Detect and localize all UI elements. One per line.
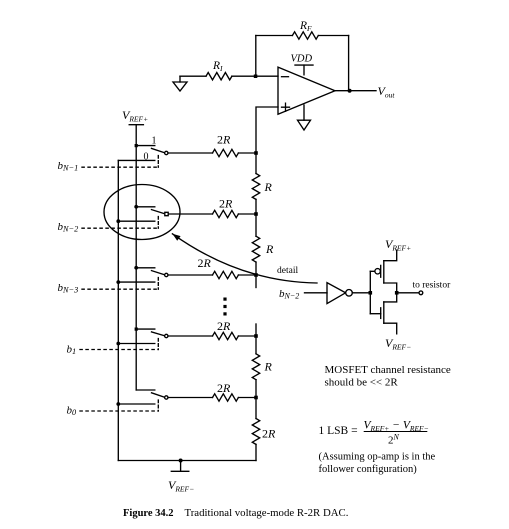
label b0 with leader [67,405,159,418]
svg-text:Figure 34.2: Figure 34.2 [123,508,174,519]
resistor R lower [252,236,274,262]
svg-text:R: R [264,360,273,374]
ground symbol at RI input [173,76,187,91]
svg-text:(Assuming op-amp is in the: (Assuming op-amp is in the [319,452,436,463]
caption Figure 34.2 [123,507,348,519]
node ladder junction 4 [254,334,258,338]
wire RI to inverting input [232,75,278,77]
wire switch3 to 2R [168,274,213,276]
switch b0 [116,390,168,411]
svg-text:VDD: VDD [291,54,313,65]
wire feedback top right [318,35,348,37]
formula 1 LSB [319,420,429,447]
svg-text:2R: 2R [217,319,231,333]
wire switch5 to 2R [168,397,213,399]
wire 2R rung1 to ladder [238,152,256,154]
switch b1 [116,328,168,350]
wire ladder seg D [255,324,257,354]
node ladder junction 5 [254,396,258,400]
wire rail VREF- [117,160,119,460]
wire 2R rung3 to ladder [238,274,256,276]
wire 2R rung2 to ladder [238,213,256,215]
node ladder junction 1 [254,151,258,155]
wire bottom [118,460,256,462]
wire switch1 to 2R [168,152,213,154]
svg-text:Traditional voltage-mode R-2R: Traditional voltage-mode R-2R DAC. [185,507,349,519]
node ladder junction 2 [254,212,258,216]
svg-text:1: 1 [152,136,157,147]
switch b_N-1 [118,136,168,168]
wire non-inverting input [256,107,278,153]
resistor 2R rung5 [213,381,239,401]
svg-text:follower configuration): follower configuration) [319,464,418,475]
node gate junction [369,291,373,295]
resistor R bottom [252,354,272,380]
op-amp U1 [278,67,335,114]
arrow detail curve [172,234,317,283]
wire ladder seg F [255,444,257,460]
wire inverter to gates [352,292,370,294]
svg-text:2R: 2R [217,133,231,147]
resistor R upper [252,174,272,200]
resistor 2R rung3 [198,256,239,279]
svg-text:to resistor: to resistor [413,281,452,291]
svg-text:detail: detail [277,266,298,276]
switch b_N-3 [116,266,168,289]
ground below op-amp [298,105,311,130]
resistor 2R rung4 [213,319,239,340]
svg-text:MOSFET channel resistance: MOSFET channel resistance [325,364,451,376]
wire switch2 to 2R [169,213,213,215]
switch b_N-2 [116,205,168,228]
resistor 2R terminal [252,419,276,445]
wire ladder seg E [255,380,257,419]
svg-text:2R: 2R [198,256,212,270]
label bN-2 with leader [58,221,159,234]
node MOSFET drain junction [395,291,399,295]
transistor M2 NMOS [370,293,396,334]
wire feedback top left [256,35,293,37]
VREF- terminal bottom [168,459,194,494]
resistor 2R rung2 [213,197,239,218]
wire switch4 to 2R [168,335,213,337]
wire 2R rung4 to ladder [238,335,256,337]
VDD supply [291,54,314,75]
node output dot [348,89,352,93]
resistor RI [206,60,232,80]
transistor M1 PMOS [370,250,396,293]
wire gate vertical [369,271,371,313]
svg-text:R: R [265,242,274,256]
label bN-1 with leader [58,160,159,173]
node ladder junction 3 [254,273,258,277]
wire to resistor terminal [397,292,419,294]
svg-text:1 LSB =: 1 LSB = [319,425,358,437]
wire rail VREF+ [135,146,137,390]
wire 2R rung5 to ladder [238,397,256,399]
wire op-amp output [335,90,376,92]
note assuming op-amp [319,452,436,476]
ellipsis dots ladder [223,298,226,316]
wire ladder seg B [255,199,257,236]
resistor 2R rung1 [213,133,239,157]
svg-text:2R: 2R [219,197,233,211]
svg-text:should be << 2R: should be << 2R [325,377,399,389]
wire ladder seg C [255,262,257,287]
node inverting input dot [254,75,257,79]
inverter U2 [327,283,352,304]
terminal circle to resistor [419,291,423,295]
wire bN-2 to inverter [305,292,328,294]
resistor RF [292,20,318,39]
note MOSFET channel resistance [325,364,451,389]
label bN-3 with leader [58,282,159,295]
wire feedback left leg [255,36,257,77]
svg-text:2R: 2R [217,381,231,395]
label b1 with leader [67,344,159,357]
VREF+ terminal top left [122,108,148,146]
wire ground to RI [180,75,206,77]
svg-text:R: R [264,180,273,194]
wire ladder seg A [255,153,257,174]
detail ellipse [104,185,180,240]
svg-text:2R: 2R [262,427,276,441]
wire feedback right leg [348,36,350,91]
